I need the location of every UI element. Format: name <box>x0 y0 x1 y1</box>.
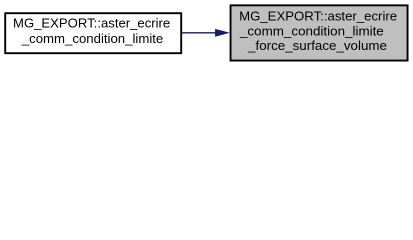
svg-text:_force_surface_volume: _force_surface_volume <box>247 38 387 53</box>
svg-text:_comm_condition_limite: _comm_condition_limite <box>21 31 164 46</box>
svg-text:MG_EXPORT::aster_ecrire: MG_EXPORT::aster_ecrire <box>239 9 397 24</box>
svg-text:MG_EXPORT::aster_ecrire: MG_EXPORT::aster_ecrire <box>13 15 170 30</box>
svg-text:_comm_condition_limite: _comm_condition_limite <box>239 23 384 38</box>
